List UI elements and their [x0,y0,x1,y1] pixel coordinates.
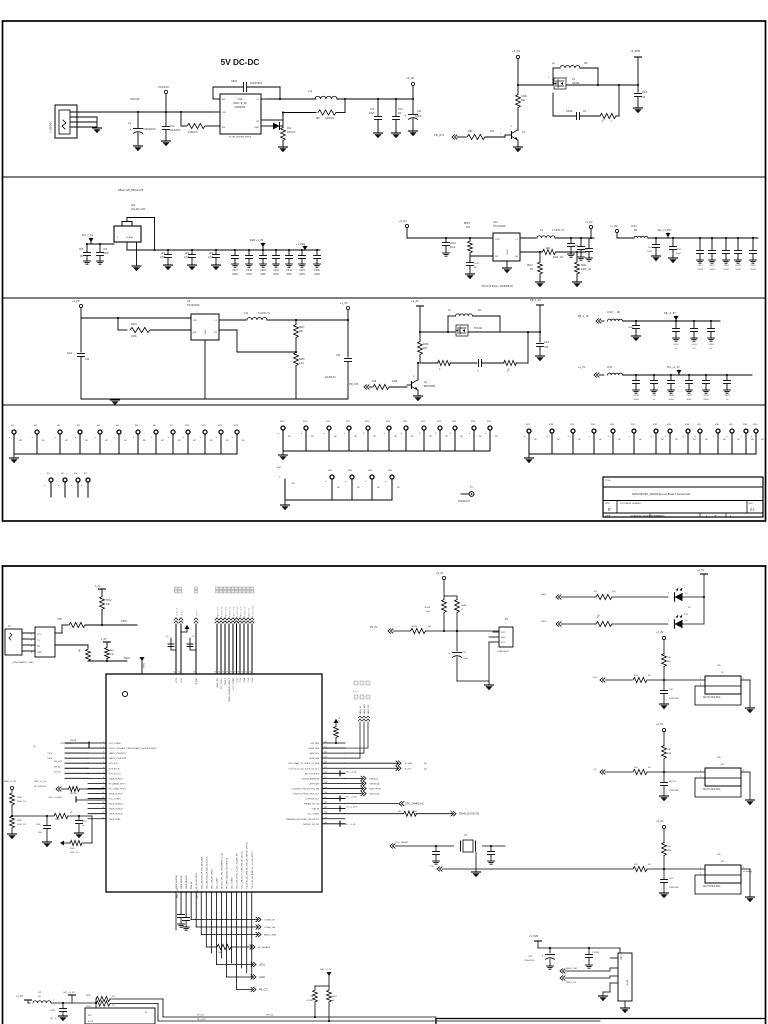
svg-text:SHEET: SHEET [655,515,662,517]
testpoint R17 [344,421,358,451]
svg-text:100N: 100N [750,269,756,271]
svg-text:R1: R1 [11,425,15,427]
capacitor C802 100nF/50V bootstrap [213,80,316,100]
testpoint B4 [81,473,90,497]
svg-text:R35: R35 [697,424,702,426]
svg-text:NC: NC [105,440,109,442]
svg-text:R34: R34 [610,424,615,426]
resistor series 0R module3 [633,864,705,872]
svg-text:100uF: 100uF [415,115,422,118]
svg-text:X_QN/TS11_FWLCK/TS132_RM: X_QN/TS11_FWLCK/TS132_RM [291,788,319,790]
svg-text:EN: EN [222,99,225,101]
svg-text:DM2 +1_8V: DM2 +1_8V [250,239,264,242]
svg-text:R012: R012 [86,995,92,997]
capacitor CF19 10uF out2 [578,237,589,260]
rotated net labels under mcu [177,887,199,898]
testpoint T1 AVDDCK-P [458,487,474,503]
svg-text:CF3: CF3 [185,253,190,255]
testpoint B2 [58,473,67,497]
svg-text:C100N: C100N [592,952,599,954]
svg-text:10uF: 10uF [208,257,214,259]
svg-text:123: 123 [324,757,327,759]
svg-text:R34: R34 [685,424,690,426]
net PB_1_1V filter1 [578,315,604,323]
mcu left pin stubs [88,743,106,819]
svg-text:TS8D7SE [4]: TS8D7SE [4] [369,788,381,790]
svg-text:1u: 1u [693,348,696,350]
svg-text:T0D0: T0D0 [124,658,130,660]
net PD_CTL with resistor 10K [434,130,505,140]
svg-text:CF46: CF46 [668,395,674,397]
svg-text:NC: NC [242,440,246,442]
svg-text:TGL4: TGL4 [244,678,246,683]
net CB+ module1 [593,677,632,682]
wire input bus to ground [86,112,138,128]
svg-text:126: 126 [324,772,327,774]
wires hdmi rows bend up [345,703,370,758]
svg-text:1u: 1u [653,399,656,401]
svg-text:10K: 10K [299,331,304,333]
testpoint R8 [32,425,46,454]
svg-text:CF10: CF10 [260,270,266,272]
svg-text:+: + [385,480,387,483]
testpoint R10 [183,425,197,454]
inductor L11 [308,89,378,99]
testpoint R9 [55,425,69,454]
svg-text:R11: R11 [287,127,292,130]
capacitor C12 100uF [378,99,422,136]
ground module1 right [741,680,755,713]
svg-text:+: + [55,436,57,439]
svg-text:C2-: C2- [593,769,597,771]
capacitor CF23 1u [724,374,731,401]
regulator U3 ST1S10RK [81,300,237,399]
net RXD with resistor R8 [55,645,130,661]
svg-text:C31: C31 [462,652,467,654]
svg-text:R44: R44 [368,470,373,472]
svg-text:GP1_MPS_VLD/SMCI_BTS/GPIO14: GP1_MPS_VLD/SMCI_BTS/GPIO14 [227,858,229,889]
svg-text:SPI_SCK: SPI_SCK [54,761,63,763]
svg-text:QP_DS/LN_GPIO3: QP_DS/LN_GPIO3 [196,873,198,889]
svg-text:R37: R37 [729,424,734,426]
svg-text:+: + [469,432,471,435]
transistor Q2 control [505,126,526,152]
svg-text:PRE_1_8V: PRE_1_8V [177,887,179,898]
power stub row16 [340,821,356,826]
svg-text:R27: R27 [423,348,428,350]
svg-text:CPU_24MHZ: CPU_24MHZ [395,842,409,844]
svg-text:100R_1%: 100R_1% [17,824,26,826]
svg-text:PF_3V: PF_3V [370,626,378,629]
svg-text:NC: NC [478,309,482,312]
svg-text:+: + [589,435,591,438]
resistor R1 470 led1 [594,591,668,600]
svg-text:R41: R41 [468,130,473,133]
resistor series 0R module1 [633,675,705,683]
capacitor CX1 crystal left [433,845,440,864]
svg-text:+: + [130,128,132,132]
svg-text:GMC_ADTS/LN_GP_DG3_SDG_SCL: GMC_ADTS/LN_GP_DG3_SDG_SCL [205,857,208,889]
svg-text:R42: R42 [328,470,333,472]
svg-text:CF16: CF16 [648,247,654,249]
svg-text:+: + [9,436,11,439]
svg-text:CB10: CB10 [36,824,41,826]
svg-text:UART0_RX/GPIO37: UART0_RX/GPIO37 [109,752,126,755]
svg-text:UUAC_R: UUAC_R [176,607,179,616]
svg-text:+: + [568,435,570,438]
resistor R235 2.2K [294,353,306,400]
svg-text:C13: C13 [544,347,549,349]
svg-text:PVN: PVN [495,239,500,241]
wire GPI_S0 bus [158,1004,600,1022]
svg-text:+: + [683,435,685,438]
svg-text:+: + [751,435,753,438]
svg-text:L11: L11 [308,89,313,93]
svg-text:CF4: CF4 [161,253,166,255]
svg-text:TDATA/BISOQE1/XJTAG_TB1/GPIOX2: TDATA/BISOQE1/XJTAG_TB1/GPIOX2 [286,818,319,821]
resistor R012 [86,995,163,1003]
svg-text:T1: T1 [470,487,473,489]
svg-text:+: + [325,480,327,483]
svg-text:1u: 1u [726,399,729,401]
gpi io expander U30 [85,1002,155,1024]
net DBG1_DM arrow [560,968,610,973]
svg-text:VDDB_VREF: VDDB_VREF [109,819,121,821]
capacitor CB11 1n [75,815,87,838]
resistor R22 30K gate pullup [516,85,528,130]
svg-text:PAM2305: PAM2305 [235,106,246,109]
svg-text:B1: B1 [505,619,509,621]
title block sheet2 partial [436,1019,765,1024]
svg-text:L10: L10 [244,312,249,315]
net label GPI +3_3V [63,992,76,1003]
svg-text:CB+: CB+ [717,757,722,759]
capacitor TC4 10uF/16V [162,112,181,146]
capacitor TC2 NC [392,98,404,138]
svg-text:HDMI_TX1P: HDMI_TX1P [226,606,228,617]
capacitor CX2 crystal right [488,845,495,864]
net label DB +1_8V [664,312,679,321]
svg-text:FB: FB [515,256,518,258]
svg-text:+: + [183,436,185,439]
svg-text:+: + [713,435,715,438]
svg-text:DV_+1_8VY: DV_+1_8VY [658,229,672,232]
svg-text:R849: R849 [17,820,23,822]
testpoint R37 [727,424,741,454]
svg-text:VIN: VIN [193,320,197,322]
svg-text:TCL2_FSL_DS_DSN_WC_ZNS_DS_SNS/: TCL2_FSL_DS_DSN_WC_ZNS_DS_SNS/GP_GPIO16 [247,842,249,889]
capacitor C50 220uF/10V [524,947,555,969]
svg-text:6: 6 [103,767,104,769]
svg-text:NC: NC [143,440,147,442]
svg-text:VCT_TOUC1: VCT_TOUC1 [221,678,223,689]
testpoint R13 [232,425,246,454]
capacitor C40 module1 [660,680,680,709]
mosfet Q3 switch [419,325,541,336]
svg-text:+: + [32,436,34,439]
svg-text:R21: R21 [421,421,426,423]
svg-text:R24: R24 [471,421,476,423]
svg-text:R5: R5 [135,425,139,427]
power flag +2_5V module2 [656,723,666,746]
svg-text:+: + [485,432,487,435]
svg-text:(1PNR-UART1L GND): (1PNR-UART1L GND) [12,661,34,664]
svg-text:100K: 100K [131,335,137,338]
svg-text:69: 69 [237,672,239,674]
svg-text:+: + [200,436,202,439]
svg-text:NC: NC [397,487,401,489]
svg-text:0R: 0R [332,1000,335,1002]
svg-text:CF62: CF62 [708,344,714,346]
svg-text:FST: FST [88,1015,93,1017]
svg-text:RR3TVJ: RR3TVJ [70,793,77,795]
svg-text:3: 3 [511,126,513,128]
svg-text:+: + [363,432,365,435]
svg-text:NF_SOC/GPIO6: NF_SOC/GPIO6 [305,773,319,775]
svg-text:100N: 100N [735,269,741,271]
svg-text:CF50: CF50 [703,395,709,397]
svg-text:R308: R308 [412,626,418,628]
wire main 12V rail [138,111,213,113]
svg-text:NM: NM [316,118,320,120]
net LAN led2 [541,621,596,626]
svg-text:GND: GND [501,637,506,639]
svg-text:J2: J2 [8,625,11,628]
net labels GPI_S1 GPI_SCK GPI_S0 [197,1015,274,1022]
uart header U21 [22,627,55,657]
svg-text:NC: NC [661,439,665,441]
svg-text:X_IN/TS11_PSYNC/TS12_CLK: X_IN/TS11_PSYNC/TS12_CLK [293,794,320,796]
svg-text:GTD_+1_8VSV: GTD_+1_8VSV [48,797,63,799]
svg-text:DBG1_DP: DBG1_DP [566,982,577,984]
svg-text:R024: R024 [332,996,338,998]
ground crystal shield [472,852,481,877]
svg-text:+2_5V: +2_5V [656,723,664,726]
svg-text:1: 1 [31,634,33,636]
net DM2 +1_8V left node [4,781,47,792]
svg-text:DM4_IN: DM4_IN [191,881,193,889]
svg-text:+: + [608,435,610,438]
svg-text:PLL_+1_8V: PLL_+1_8V [346,771,357,773]
svg-text:AVDDCK-P: AVDDCK-P [458,500,471,503]
capacitor CF11 100V [286,249,293,276]
svg-text:+: + [168,436,170,439]
svg-text:[X]: [X] [424,768,427,770]
svg-text:+5_0V: +5_0V [399,219,407,223]
svg-text:3_3V: 3_3V [95,585,101,588]
svg-text:VDC_CORE3: VDC_CORE3 [232,877,234,889]
svg-text:R19: R19 [386,421,391,423]
svg-text:+: + [401,432,403,435]
capacitor CF62 1u [708,320,715,350]
svg-text:GND: GND [254,127,259,129]
svg-text:CF18: CF18 [450,243,456,245]
mcu left long stub wires [65,743,88,778]
svg-text:BS BF: BS BF [627,979,629,985]
net label DV +1_8VY [658,229,672,238]
svg-text:TC4: TC4 [170,125,175,128]
svg-text:NC: NC [761,439,765,441]
svg-text:NC: NC [193,440,197,442]
svg-text:+: + [365,480,367,483]
svg-text:SCLK: SCLK [88,1021,94,1023]
svg-text:R12: R12 [218,425,223,427]
svg-text:KEY/S.XDA.XEA: KEY/S.XDA.XEA [703,788,721,791]
svg-text:CB+: CB+ [717,665,722,667]
testpoint bus wire [14,453,237,455]
svg-text:0R: 0R [648,675,651,677]
testpoint R11 [200,425,214,454]
capacitor CF44 filter1 [628,320,641,341]
testpoint R18 [363,421,377,451]
svg-text:C40: C40 [669,689,674,691]
svg-text:PB_1_1P: PB_1_1P [578,315,589,318]
capacitor C40 22uF input [67,353,90,399]
testpoint R33 [589,424,603,454]
svg-text:100N: 100N [160,257,166,259]
svg-text:0R: 0R [648,864,651,866]
svg-text:VDDB_DDR104: VDDB_DDR104 [109,809,123,811]
svg-text:16: 16 [102,817,104,819]
svg-text:VCC_CORE0: VCC_CORE0 [109,743,121,745]
svg-text:C2: C2 [583,111,587,113]
svg-text:R19: R19 [372,381,377,383]
svg-text:RST: RST [501,632,506,634]
testpoint R29 [568,424,582,454]
resistor R2 24.8K [306,986,317,1018]
net label +1_8VD [296,243,308,250]
svg-text:C9: C9 [192,636,194,638]
svg-text:B3: B3 [721,861,724,863]
svg-text:C92: C92 [669,878,674,880]
mcu top inner pin labels [176,677,254,702]
svg-text:X_IP/TS11_CLK: X_IP/TS11_CLK [305,799,319,801]
svg-text:+: + [58,484,60,487]
svg-text:VCC_CONN3: VCC_CONN3 [233,678,235,690]
svg-text:[X]: [X] [424,763,427,765]
capacitor CF4 100N [160,249,173,270]
power flag +5_0V output [406,76,415,100]
svg-text:R_Adj1: R_Adj1 [126,236,134,239]
svg-text:124: 124 [324,762,327,764]
net LED2 [227,975,266,979]
svg-text:NC: NC [311,436,315,438]
svg-text:U10: U10 [238,97,243,101]
svg-text:220uF/10V: 220uF/10V [524,960,535,962]
testpoint B3 [71,473,80,497]
text VOUT formula [481,284,513,288]
svg-text:2: 2 [31,640,33,642]
testpoint R17 [524,424,538,454]
svg-text:R8: R8 [34,425,38,427]
svg-text:128: 128 [324,782,327,784]
svg-text:+5_0V: +5_0V [406,76,414,80]
testpoint B1 [44,473,53,497]
svg-text:FBDA33_PLL_S0: FBDA33_PLL_S0 [304,803,319,806]
svg-text:60: 60 [173,672,175,674]
svg-text:1 0: 1 0 [685,593,689,595]
svg-text:VDD833_ASE/HDMI: VDD833_ASE/HDMI [302,777,320,780]
svg-text:NC: NC [65,440,69,442]
svg-text:FP_CLK/A3_GPIO6: FP_CLK/A3_GPIO6 [109,787,126,790]
testpoint bus wire [283,450,490,452]
resistor R849 100R [8,816,27,839]
svg-text:VCL1: VCL1 [181,678,183,683]
svg-text:+: + [695,435,697,438]
svg-text:5: 5 [103,762,104,764]
power flag PG_1_1V input [82,233,114,244]
svg-text:TC1: TC1 [370,108,375,111]
transistor Q4 BD8T3964 [407,362,436,401]
svg-text:s/LoudKy: s/LoudKy [743,871,753,873]
svg-text:GMC_ADTS/LN_GP_RG2_DBG_SDA: GMC_ADTS/LN_GP_RG2_DBG_SDA [200,856,203,889]
testpoint R14 [278,421,292,451]
net +1_2V filter2 [578,366,604,377]
svg-text:R2: R2 [310,996,313,998]
svg-text:10uF: 10uF [583,249,589,251]
svg-text:TS8B0 [4]: TS8B0 [4] [369,778,378,780]
svg-text:TITLE:: TITLE: [605,480,611,482]
svg-text:RF9: RF9 [546,248,551,250]
svg-text:R22: R22 [521,99,526,102]
power flag +3_3V module3 [656,820,666,843]
svg-text:R15: R15 [303,421,308,423]
net label PLL +1_2V [667,366,682,375]
svg-text:R38: R38 [743,424,748,426]
testpoint R16 [324,421,338,451]
svg-text:BP_DS3/TR4: BP_DS3/TR4 [34,786,47,788]
svg-text:B1: B1 [47,473,50,475]
svg-text:NC: NC [394,436,398,438]
svg-text:CF31: CF31 [474,263,480,265]
key switch K2 module1 [695,665,745,705]
svg-text:B_HDM_2N: B_HDM_2N [222,606,224,617]
svg-text:70: 70 [241,672,243,674]
sheet 1 border frame [3,21,766,521]
svg-text:200PF/NC: 200PF/NC [669,790,680,792]
capacitor C13 10uF band3 [536,332,550,361]
ferrite bead LF12 8R [631,225,758,238]
svg-text:100nF: 100nF [566,111,573,113]
resistor R80 led2 [596,613,668,626]
svg-text:100N: 100N [273,274,279,276]
svg-text:9: 9 [103,782,104,784]
svg-text:B_SDA: B_SDA [405,762,412,765]
power arrow audio [181,625,190,632]
svg-text:8: 8 [103,777,104,779]
text uart note [12,661,34,664]
svg-text:HDMI_HPD: HDMI_HPD [364,703,366,714]
svg-text:NC: NC [578,439,582,441]
power flag GTD_+1_8VF [33,740,89,748]
svg-text:LX: LX [256,99,259,101]
svg-text:Q?: Q? [522,132,526,134]
svg-text:240R_1%: 240R_1% [70,852,79,854]
mcu top pins group A labels [176,607,199,616]
svg-text:C12: C12 [417,110,422,113]
resistor RF12 NC [527,251,545,287]
svg-text:R33: R33 [591,424,596,426]
svg-text:DX_+1_8DY: DX_+1_8DY [346,807,358,809]
svg-text:Q1: Q1 [572,78,576,81]
svg-text:BP_RU/BPF: BP_RU/BPF [258,947,271,949]
svg-text:+1_8VD: +1_8VD [296,243,305,246]
resistor R237 10K [294,319,306,352]
svg-text:+5_0VB: +5_0VB [529,935,538,938]
testpoint R34 [683,424,697,454]
svg-text:1n: 1n [82,825,84,827]
svg-text:100N: 100N [50,1010,55,1012]
